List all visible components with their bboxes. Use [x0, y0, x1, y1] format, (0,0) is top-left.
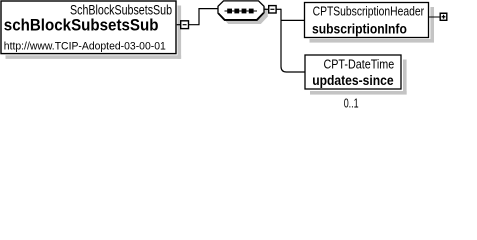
svg-text:subscriptionInfo: subscriptionInfo [312, 20, 407, 36]
svg-text:0..1: 0..1 [344, 97, 359, 111]
trunk wire down with curved elbow to updates-since [281, 9, 305, 72]
element box subscriptionInfo [305, 3, 429, 38]
sequence compositor octagon [218, 1, 264, 20]
wire from schBlockSubsetsSub to collapse box [177, 24, 181, 26]
wire from collapse box to trunk [276, 8, 281, 10]
svg-text:SchBlockSubsetsSub: SchBlockSubsetsSub [70, 2, 172, 17]
element box schBlockSubsetsSub [1, 1, 176, 54]
expand box (plus) [440, 13, 448, 22]
svg-text:CPTSubscriptionHeader: CPTSubscriptionHeader [313, 5, 425, 19]
sequence dots [225, 10, 258, 12]
wire from sequence to collapse box right [264, 8, 269, 10]
wire from subscriptionInfo to expand box [429, 16, 440, 18]
svg-text:http://www.TCIP-Adopted-03-00-: http://www.TCIP-Adopted-03-00-01 [4, 40, 166, 52]
wire from collapse box to sequence symbol [189, 9, 219, 25]
shadow of element box subscriptionInfo [310, 7, 435, 43]
collapse box (minus) right of sequence [269, 6, 276, 13]
svg-text:CPT-DateTime: CPT-DateTime [324, 56, 395, 71]
collapse box (minus) left [181, 21, 189, 29]
shadow of element box schBlockSubsetsSub [6, 6, 182, 59]
shadow of element box updates-since [310, 60, 407, 95]
branch wire to subscriptionInfo [281, 19, 304, 21]
shadow of sequence compositor [222, 5, 268, 24]
svg-text:schBlockSubsetsSub: schBlockSubsetsSub [4, 17, 159, 35]
element box updates-since [305, 55, 401, 89]
svg-text:updates-since: updates-since [312, 72, 393, 88]
